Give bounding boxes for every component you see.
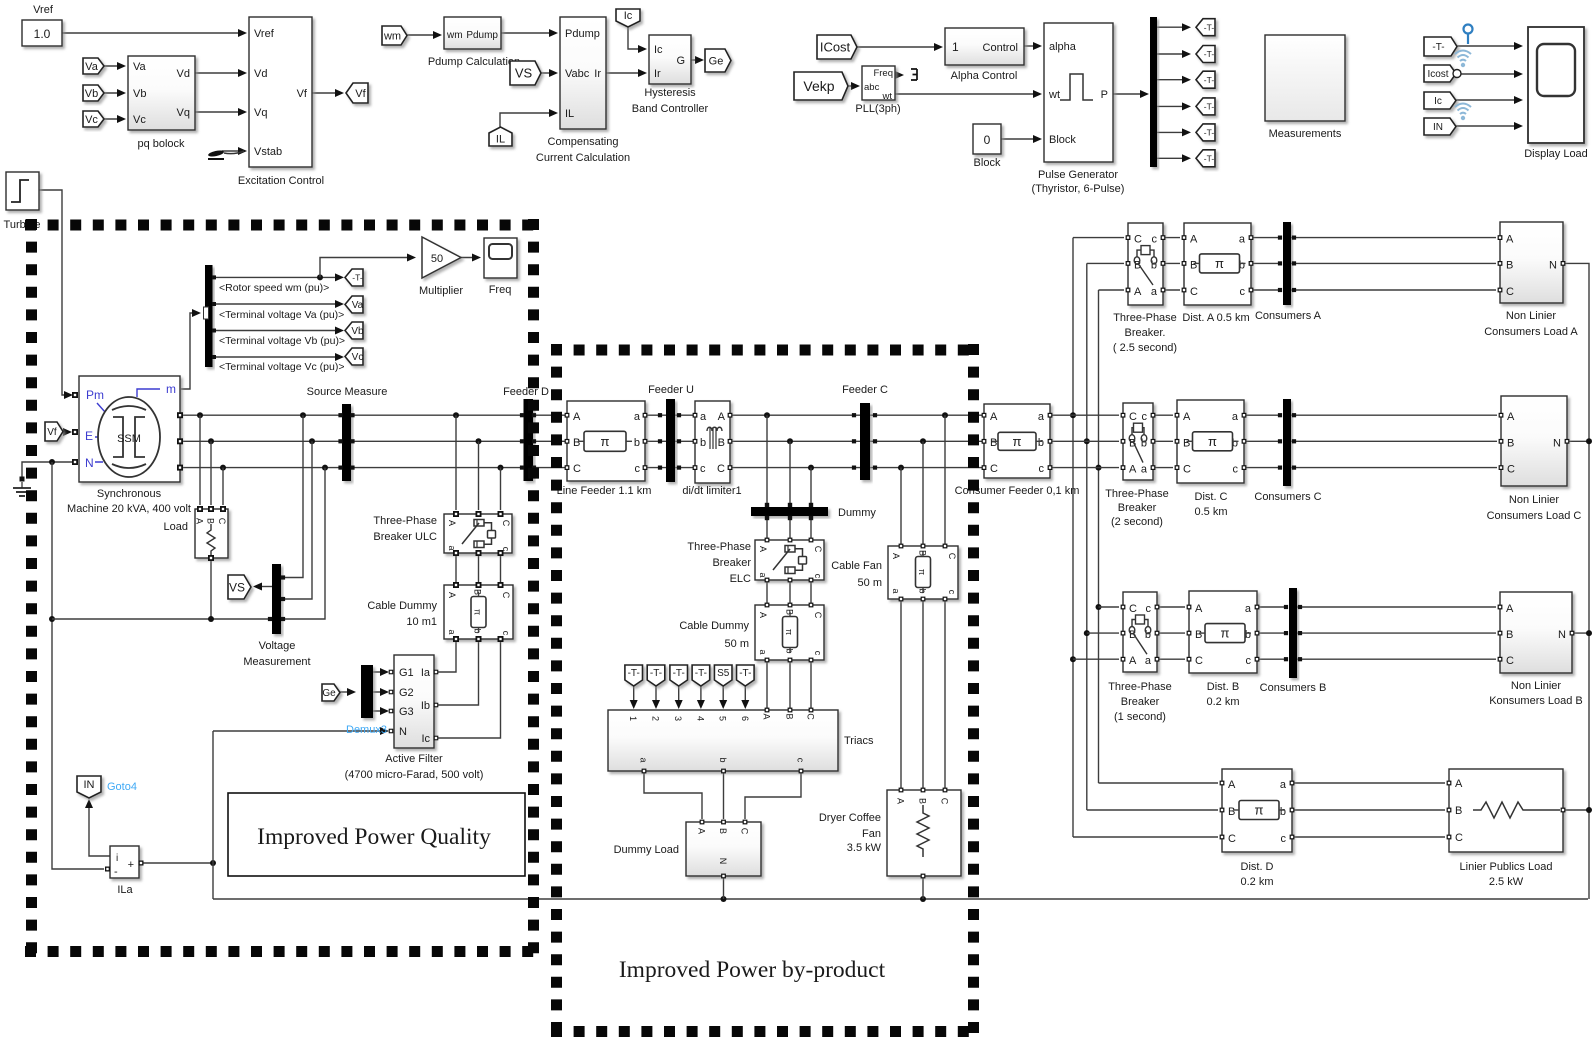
svg-text:-T-: -T- xyxy=(1204,22,1215,32)
svg-text:C: C xyxy=(501,592,511,599)
svg-text:Three-Phase: Three-Phase xyxy=(1105,488,1169,500)
svg-text:3: 3 xyxy=(673,716,683,721)
svg-text:c: c xyxy=(1281,833,1287,845)
svg-text:Va: Va xyxy=(352,300,364,311)
svg-text:di/dt limiter1: di/dt limiter1 xyxy=(682,485,741,497)
svg-text:a: a xyxy=(639,757,649,762)
svg-text:A: A xyxy=(697,828,707,834)
svg-text:A: A xyxy=(990,411,998,423)
svg-text:a: a xyxy=(1141,464,1148,476)
svg-text:π: π xyxy=(1208,434,1217,449)
svg-text:Line Feeder 1.1 km: Line Feeder 1.1 km xyxy=(557,485,652,497)
svg-text:A: A xyxy=(1455,778,1463,790)
svg-text:C: C xyxy=(1134,234,1142,246)
svg-text:N: N xyxy=(1549,259,1557,271)
svg-text:Vd: Vd xyxy=(177,68,190,80)
svg-text:c: c xyxy=(1246,655,1252,667)
svg-text:B: B xyxy=(1228,806,1235,818)
svg-text:C: C xyxy=(1506,286,1514,298)
svg-text:Alpha Control: Alpha Control xyxy=(951,70,1018,82)
svg-text:π: π xyxy=(601,434,610,449)
svg-text:Vf: Vf xyxy=(47,427,57,438)
svg-text:Ge: Ge xyxy=(322,688,336,699)
svg-text:50 m: 50 m xyxy=(858,577,882,589)
svg-text:Consumers A: Consumers A xyxy=(1255,310,1322,322)
svg-text:Ir: Ir xyxy=(654,68,661,80)
svg-text:Vf: Vf xyxy=(297,88,308,100)
svg-text:c: c xyxy=(813,574,823,579)
svg-text:i: i xyxy=(116,853,118,864)
svg-text:c: c xyxy=(947,590,957,595)
svg-text:(4700 micro-Farad, 500 volt): (4700 micro-Farad, 500 volt) xyxy=(345,769,484,781)
svg-text:0.2 km: 0.2 km xyxy=(1240,876,1273,888)
svg-text:B: B xyxy=(1195,629,1202,641)
svg-text:Vb: Vb xyxy=(351,326,364,337)
svg-text:A: A xyxy=(447,520,457,526)
svg-text:b: b xyxy=(634,437,640,449)
svg-text:B: B xyxy=(718,828,728,834)
svg-text:a: a xyxy=(1280,779,1287,791)
svg-text:Three-Phase: Three-Phase xyxy=(373,515,437,527)
svg-text:1: 1 xyxy=(952,40,959,54)
svg-text:-T-: -T- xyxy=(695,668,707,679)
svg-text:10 m1: 10 m1 xyxy=(406,616,437,628)
svg-text:Ic: Ic xyxy=(1434,96,1442,107)
svg-text:a: a xyxy=(1239,234,1246,246)
svg-text:Consumers C: Consumers C xyxy=(1254,491,1321,503)
svg-text:N: N xyxy=(399,726,407,738)
svg-text:B: B xyxy=(785,713,795,719)
svg-text:A: A xyxy=(1183,411,1191,423)
svg-text:B: B xyxy=(1183,437,1190,449)
svg-text:abc: abc xyxy=(864,82,880,93)
svg-text:Synchronous: Synchronous xyxy=(97,488,162,500)
svg-text:(2 second): (2 second) xyxy=(1111,516,1163,528)
svg-text:-T-: -T- xyxy=(1204,101,1215,111)
svg-text:ICost: ICost xyxy=(820,40,851,55)
svg-text:Vref: Vref xyxy=(33,4,54,16)
svg-text:Ic: Ic xyxy=(654,44,663,56)
svg-text:a: a xyxy=(758,572,768,577)
svg-text:A: A xyxy=(1507,411,1515,423)
svg-text:A: A xyxy=(762,713,772,719)
svg-text:IN: IN xyxy=(84,779,95,791)
svg-text:Ge: Ge xyxy=(709,55,724,67)
svg-text:A: A xyxy=(891,553,901,559)
svg-text:N: N xyxy=(1558,629,1566,641)
svg-text:Three-Phase: Three-Phase xyxy=(687,541,751,553)
svg-text:a: a xyxy=(1145,655,1152,667)
svg-text:C: C xyxy=(1228,833,1236,845)
svg-text:0.5 km: 0.5 km xyxy=(1194,506,1227,518)
svg-text:Dist. C: Dist. C xyxy=(1195,491,1228,503)
svg-text:IL: IL xyxy=(496,133,505,145)
svg-text:C: C xyxy=(940,798,950,805)
svg-text:Consumers Load A: Consumers Load A xyxy=(1484,326,1578,338)
svg-text:Ic: Ic xyxy=(421,733,430,745)
svg-text:wm: wm xyxy=(383,30,401,42)
svg-text:Pm: Pm xyxy=(86,388,104,402)
svg-text:m: m xyxy=(166,382,176,396)
svg-text:Dist. D: Dist. D xyxy=(1241,861,1274,873)
svg-text:a: a xyxy=(1038,411,1045,423)
svg-text:-T-: -T- xyxy=(1204,49,1215,59)
svg-text:C: C xyxy=(806,713,816,720)
svg-text:c: c xyxy=(1146,603,1152,615)
svg-text:Measurements: Measurements xyxy=(1269,128,1342,140)
svg-text:A: A xyxy=(758,612,768,618)
svg-text:Freq: Freq xyxy=(873,68,893,79)
svg-text:2.5 kW: 2.5 kW xyxy=(1489,876,1524,888)
svg-text:B: B xyxy=(473,589,483,595)
svg-text:Control: Control xyxy=(983,42,1018,54)
svg-text:ILa: ILa xyxy=(117,884,133,896)
svg-text:Dummy Load: Dummy Load xyxy=(614,844,679,856)
svg-text:alpha: alpha xyxy=(1049,41,1077,53)
svg-text:Breaker ULC: Breaker ULC xyxy=(373,531,437,543)
svg-text:A: A xyxy=(1506,603,1514,615)
svg-text:B: B xyxy=(1506,629,1513,641)
svg-text:50 m: 50 m xyxy=(725,638,749,650)
svg-text:Improved Power by-product: Improved Power by-product xyxy=(619,957,886,983)
svg-text:C: C xyxy=(217,518,227,525)
svg-text:π: π xyxy=(473,609,483,615)
svg-text:Vref: Vref xyxy=(254,28,275,40)
svg-text:A: A xyxy=(1195,603,1203,615)
svg-text:Ic: Ic xyxy=(624,10,633,22)
svg-text:Vq: Vq xyxy=(177,107,190,119)
svg-text:c: c xyxy=(1142,411,1148,423)
svg-text:C: C xyxy=(813,612,823,619)
svg-text:Block: Block xyxy=(974,157,1001,169)
svg-text:Breaker.: Breaker. xyxy=(1125,327,1166,339)
svg-text:Freq: Freq xyxy=(489,284,512,296)
svg-text:Breaker: Breaker xyxy=(1118,502,1157,514)
svg-text:Feeder U: Feeder U xyxy=(648,384,694,396)
svg-text:Vabc: Vabc xyxy=(565,68,590,80)
svg-text:Voltage: Voltage xyxy=(259,640,296,652)
svg-text:Fan: Fan xyxy=(862,828,881,840)
svg-text:c: c xyxy=(796,758,806,763)
svg-text:B: B xyxy=(573,437,580,449)
svg-text:Pdump: Pdump xyxy=(565,28,600,40)
svg-text:a: a xyxy=(1232,411,1239,423)
svg-text:Dist. A 0.5 km: Dist. A 0.5 km xyxy=(1182,312,1249,324)
svg-text:0.2 km: 0.2 km xyxy=(1206,696,1239,708)
svg-text:π: π xyxy=(1221,626,1230,641)
svg-text:c: c xyxy=(1233,464,1239,476)
svg-text:C: C xyxy=(813,546,823,553)
svg-text:Triacs: Triacs xyxy=(844,735,874,747)
svg-text:6: 6 xyxy=(740,716,750,721)
svg-text:<Terminal voltage Vb (pu)>: <Terminal voltage Vb (pu)> xyxy=(219,335,345,347)
svg-text:Konsumers Load B: Konsumers Load B xyxy=(1489,695,1583,707)
svg-text:Display Load: Display Load xyxy=(1524,148,1588,160)
svg-text:a: a xyxy=(758,649,768,654)
svg-text:wt: wt xyxy=(882,91,893,102)
svg-text:a: a xyxy=(1151,286,1158,298)
svg-text:IL: IL xyxy=(565,108,574,120)
svg-text:A: A xyxy=(1134,286,1142,298)
svg-text:C: C xyxy=(1507,464,1515,476)
svg-text:π: π xyxy=(1255,803,1264,818)
svg-text:5: 5 xyxy=(718,716,728,721)
svg-text:C: C xyxy=(1195,655,1203,667)
svg-text:-T-: -T- xyxy=(352,273,363,283)
svg-text:A: A xyxy=(447,592,457,598)
svg-text:Block: Block xyxy=(1049,134,1076,146)
svg-text:B: B xyxy=(718,437,725,449)
svg-text:A: A xyxy=(896,798,906,804)
svg-text:(1 second): (1 second) xyxy=(1114,711,1166,723)
svg-text:Measurement: Measurement xyxy=(243,656,310,668)
svg-text:<Terminal voltage Va (pu)>: <Terminal voltage Va (pu)> xyxy=(219,309,344,321)
svg-text:G2: G2 xyxy=(399,687,414,699)
svg-text:50: 50 xyxy=(431,253,443,265)
svg-text:Vb: Vb xyxy=(85,88,98,100)
svg-text:Excitation Control: Excitation Control xyxy=(238,175,324,187)
svg-text:Linier Publics Load: Linier Publics Load xyxy=(1460,861,1553,873)
svg-text:Feeder D: Feeder D xyxy=(503,386,549,398)
svg-text:-T-: -T- xyxy=(628,668,640,679)
svg-text:C: C xyxy=(1129,603,1137,615)
svg-text:B: B xyxy=(1506,259,1513,271)
svg-text:c: c xyxy=(813,651,823,656)
svg-text:Ib: Ib xyxy=(421,700,430,712)
svg-text:Load: Load xyxy=(164,521,188,533)
svg-text:c: c xyxy=(1152,234,1158,246)
svg-text:Cable Fan: Cable Fan xyxy=(831,560,882,572)
svg-text:Vc: Vc xyxy=(352,352,364,363)
svg-text:C: C xyxy=(1190,286,1198,298)
svg-text:Vf: Vf xyxy=(355,88,366,100)
svg-text:Three-Phase: Three-Phase xyxy=(1108,681,1172,693)
svg-text:Vc: Vc xyxy=(133,114,146,126)
svg-text:Va: Va xyxy=(85,61,99,73)
svg-text:Compensating: Compensating xyxy=(548,136,619,148)
svg-text:Dist. B: Dist. B xyxy=(1207,681,1239,693)
svg-text:wt: wt xyxy=(1048,89,1060,101)
svg-text:Source Measure: Source Measure xyxy=(307,386,388,398)
svg-text:N: N xyxy=(85,456,94,470)
svg-text:(Thyristor, 6-Pulse): (Thyristor, 6-Pulse) xyxy=(1032,183,1125,195)
svg-text:Icost: Icost xyxy=(1427,69,1448,80)
svg-text:A: A xyxy=(573,411,581,423)
svg-text:A: A xyxy=(1506,234,1514,246)
svg-text:a: a xyxy=(447,629,457,634)
svg-text:Cable Dummy: Cable Dummy xyxy=(679,620,749,632)
svg-text:a: a xyxy=(634,411,641,423)
svg-text:a: a xyxy=(891,588,901,593)
svg-text:S5: S5 xyxy=(717,668,730,679)
svg-text:Machine 20 kVA, 400 volt: Machine 20 kVA, 400 volt xyxy=(67,503,191,515)
svg-text:Goto4: Goto4 xyxy=(107,781,137,793)
svg-text:c: c xyxy=(1039,463,1045,475)
svg-text:Cable Dummy: Cable Dummy xyxy=(367,600,437,612)
svg-text:Vc: Vc xyxy=(85,114,98,126)
svg-text:Pdump Calculation: Pdump Calculation xyxy=(428,56,520,68)
svg-text:A: A xyxy=(758,546,768,552)
svg-text:-T-: -T- xyxy=(673,668,685,679)
svg-text:C: C xyxy=(1129,411,1137,423)
svg-text:<Rotor speed wm (pu)>: <Rotor speed wm (pu)> xyxy=(219,282,329,294)
svg-text:1: 1 xyxy=(628,716,638,721)
svg-text:B: B xyxy=(1507,437,1514,449)
svg-text:B: B xyxy=(1190,259,1197,271)
svg-text:+: + xyxy=(128,859,134,871)
svg-text:A: A xyxy=(1129,464,1137,476)
svg-text:Vd: Vd xyxy=(254,68,267,80)
svg-text:b: b xyxy=(1038,437,1044,449)
svg-text:C: C xyxy=(501,520,511,527)
svg-text:<Terminal voltage Vc (pu)>: <Terminal voltage Vc (pu)> xyxy=(219,361,344,373)
svg-text:wm: wm xyxy=(446,30,463,41)
svg-text:N: N xyxy=(1553,437,1561,449)
svg-text:-T-: -T- xyxy=(1204,153,1215,163)
svg-text:Non Linier: Non Linier xyxy=(1511,680,1561,692)
svg-text:C: C xyxy=(573,463,581,475)
svg-text:a: a xyxy=(700,411,707,423)
svg-text:B: B xyxy=(918,798,928,804)
svg-text:SSM: SSM xyxy=(117,433,141,445)
svg-text:2: 2 xyxy=(651,716,661,721)
svg-text:Non Linier: Non Linier xyxy=(1509,494,1559,506)
svg-text:A: A xyxy=(718,411,726,423)
svg-text:Consumers Load C: Consumers Load C xyxy=(1487,510,1582,522)
svg-text:π: π xyxy=(1215,256,1224,271)
svg-text:C: C xyxy=(1506,655,1514,667)
svg-text:c: c xyxy=(700,463,706,475)
svg-text:-T-: -T- xyxy=(650,668,662,679)
svg-text:C: C xyxy=(717,463,725,475)
svg-text:A: A xyxy=(1228,779,1236,791)
svg-text:Hysteresis: Hysteresis xyxy=(644,87,696,99)
svg-text:P: P xyxy=(1101,89,1108,101)
svg-text:Dummy: Dummy xyxy=(838,507,876,519)
svg-text:E: E xyxy=(85,429,93,443)
svg-text:0: 0 xyxy=(984,133,991,147)
svg-text:VS: VS xyxy=(515,66,533,81)
svg-text:Breaker: Breaker xyxy=(1121,696,1160,708)
svg-text:C: C xyxy=(947,553,957,560)
svg-text:Current Calculation: Current Calculation xyxy=(536,152,630,164)
svg-text:Vb: Vb xyxy=(133,88,146,100)
svg-text:PLL(3ph): PLL(3ph) xyxy=(855,103,900,115)
svg-text:Feeder C: Feeder C xyxy=(842,384,888,396)
svg-text:Breaker: Breaker xyxy=(712,557,751,569)
svg-text:B: B xyxy=(206,518,216,524)
svg-text:pq bolock: pq bolock xyxy=(137,138,185,150)
svg-text:c: c xyxy=(501,631,511,636)
svg-text:Pulse Generator: Pulse Generator xyxy=(1038,169,1118,181)
svg-text:Vq: Vq xyxy=(254,107,267,119)
svg-text:Va: Va xyxy=(133,61,147,73)
svg-text:c: c xyxy=(1240,286,1246,298)
svg-text:Pdump: Pdump xyxy=(466,30,498,41)
svg-text:-T-: -T- xyxy=(1204,127,1215,137)
svg-text:-: - xyxy=(114,866,118,878)
svg-text:G3: G3 xyxy=(399,706,414,718)
svg-text:( 2.5 second): ( 2.5 second) xyxy=(1113,342,1177,354)
svg-text:3.5 kW: 3.5 kW xyxy=(847,842,882,854)
svg-text:ELC: ELC xyxy=(730,573,751,585)
svg-text:-T-: -T- xyxy=(1432,42,1444,53)
svg-text:4: 4 xyxy=(695,716,705,721)
svg-text:Ia: Ia xyxy=(421,667,431,679)
svg-text:Band Controller: Band Controller xyxy=(632,103,709,115)
svg-text:C: C xyxy=(990,463,998,475)
svg-text:N: N xyxy=(718,858,728,865)
svg-text:Consumers B: Consumers B xyxy=(1260,682,1327,694)
svg-text:b: b xyxy=(1280,806,1286,818)
svg-text:Demux3: Demux3 xyxy=(346,724,387,736)
svg-text:-T-: -T- xyxy=(739,668,751,679)
svg-text:B: B xyxy=(990,437,997,449)
svg-text:π: π xyxy=(784,629,794,635)
svg-text:c: c xyxy=(635,463,641,475)
svg-text:Vstab: Vstab xyxy=(254,146,282,158)
svg-text:Non Linier: Non Linier xyxy=(1506,310,1556,322)
svg-text:B: B xyxy=(1455,805,1462,817)
svg-text:b: b xyxy=(718,757,728,762)
svg-text:G: G xyxy=(676,55,685,67)
svg-text:Vekp: Vekp xyxy=(803,78,834,94)
svg-text:a: a xyxy=(1245,603,1252,615)
svg-text:A: A xyxy=(1129,655,1137,667)
svg-text:Three-Phase: Three-Phase xyxy=(1113,312,1177,324)
svg-text:π: π xyxy=(1013,434,1022,449)
svg-text:C: C xyxy=(1183,464,1191,476)
svg-text:Active Filter: Active Filter xyxy=(385,753,443,765)
svg-text:A: A xyxy=(195,518,205,524)
svg-text:Improved Power Quality: Improved Power Quality xyxy=(257,824,491,850)
svg-text:π: π xyxy=(917,569,927,575)
svg-text:C: C xyxy=(740,828,750,835)
svg-text:G1: G1 xyxy=(399,667,414,679)
svg-text:Multiplier: Multiplier xyxy=(419,285,463,297)
svg-text:b: b xyxy=(700,437,706,449)
svg-text:A: A xyxy=(1190,234,1198,246)
svg-text:Dryer Coffee: Dryer Coffee xyxy=(819,812,881,824)
svg-text:1.0: 1.0 xyxy=(34,27,51,41)
svg-text:a: a xyxy=(447,545,457,550)
svg-text:-T-: -T- xyxy=(1204,75,1215,85)
svg-text:C: C xyxy=(1455,832,1463,844)
svg-text:b: b xyxy=(473,628,483,633)
svg-text:VS: VS xyxy=(229,580,245,594)
svg-text:IN: IN xyxy=(1433,122,1443,133)
svg-text:Ir: Ir xyxy=(594,68,601,80)
